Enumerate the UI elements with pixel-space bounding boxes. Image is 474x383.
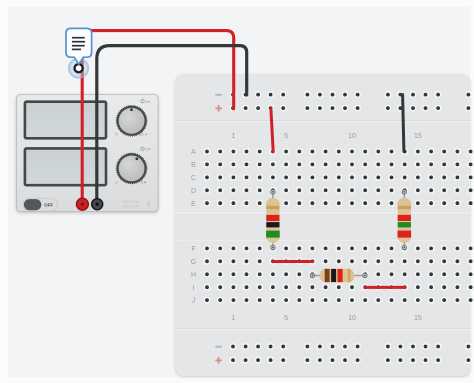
breadboard groove bottom — [175, 328, 471, 329]
column labels — [231, 133, 421, 322]
svg-text:G: G — [191, 259, 196, 266]
row labels A-J — [191, 149, 196, 305]
svg-text:15: 15 — [414, 315, 422, 322]
terminal positive — [77, 198, 89, 210]
svg-text:10: 10 — [348, 315, 356, 322]
bolt icon — [146, 199, 151, 208]
svg-text:10: 10 — [348, 133, 356, 140]
svg-text:5: 5 — [284, 133, 288, 140]
terminal negative — [92, 199, 103, 210]
wire red jumper I11-I14 — [365, 286, 405, 289]
svg-text:V≡: V≡ — [146, 100, 152, 104]
power supply PS1 — [17, 95, 159, 212]
breadboard center channel — [175, 212, 471, 213]
svg-text:D: D — [191, 188, 196, 195]
svg-text:15: 15 — [414, 133, 422, 140]
svg-text:B: B — [191, 162, 196, 169]
resistor R2 (vertical, D14-F14, red-green-red-gold) — [396, 190, 412, 250]
CV indicator — [141, 100, 144, 103]
svg-text:F: F — [191, 246, 195, 253]
wire black supply(-) to breadboard - rail — [97, 46, 247, 205]
node anchor — [75, 64, 83, 72]
breadboard groove top — [175, 120, 471, 121]
knob current — [116, 153, 147, 184]
svg-text:5: 5 — [284, 315, 288, 322]
svg-text:SUPPLY: SUPPLY — [123, 204, 138, 208]
svg-text:E: E — [191, 201, 196, 208]
svg-text:C≡: C≡ — [146, 148, 152, 152]
svg-text:C: C — [191, 175, 196, 182]
display current — [25, 148, 106, 185]
svg-text:OFF: OFF — [44, 203, 53, 208]
breadboard — [175, 74, 471, 376]
svg-text:5 A: 5 A — [141, 180, 147, 185]
CC indicator — [141, 147, 144, 150]
resistor R3 (horizontal, H7-H11, brown-black-red-gold 1k) — [310, 267, 367, 284]
annotation bubble — [66, 28, 92, 64]
svg-text:I: I — [193, 285, 195, 292]
rail markings bottom — [215, 346, 222, 348]
wire red jumper +rail to A4 — [271, 109, 273, 152]
node highlight glow — [69, 59, 88, 78]
display voltage — [25, 102, 106, 139]
svg-text:A: A — [191, 149, 196, 156]
rail markings top — [215, 94, 222, 96]
wire red supply(+) to breadboard + rail — [82, 31, 234, 205]
svg-text:H: H — [191, 272, 196, 279]
wire red jumper G4-G7 — [273, 260, 313, 263]
svg-text:30 V: 30 V — [139, 132, 148, 137]
svg-text:1: 1 — [231, 315, 235, 322]
power switch OFF — [23, 198, 57, 211]
breadboard hole grid — [204, 91, 474, 363]
svg-text:1: 1 — [231, 133, 235, 140]
resistor R1 (vertical, D4-F4, green-black-red-gold) — [265, 190, 281, 250]
svg-text:J: J — [192, 298, 196, 305]
knob voltage — [116, 105, 147, 136]
wire black jumper -rail to A14 — [403, 95, 404, 152]
